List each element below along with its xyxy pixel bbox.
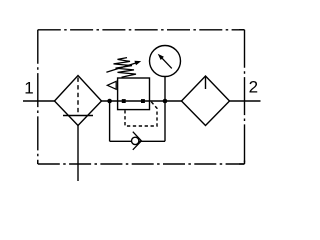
regulator valve seat square left bbox=[122, 99, 126, 103]
regulator relief vent triangle bbox=[107, 81, 116, 89]
regulator valve seat square right bbox=[141, 99, 145, 103]
filter water separator line bbox=[63, 115, 93, 117]
enclosure corner patches bbox=[37, 161, 39, 165]
wire: main line right segment (lubricator to port 2) bbox=[230, 100, 261, 102]
wire: main line middle segment (filter to lubricator through regulator) bbox=[102, 100, 182, 102]
wire: bypass loop bottom horizontal bbox=[110, 140, 165, 142]
node: junction dot left of regulator bbox=[107, 99, 112, 104]
pilot line (dashed feedback loop) bbox=[125, 102, 157, 126]
check valve seat bbox=[133, 132, 142, 150]
regulator R (body rectangle) bbox=[118, 78, 150, 110]
svg-text:1: 1 bbox=[24, 79, 33, 98]
check valve ball bbox=[132, 137, 139, 144]
regulator adjustment spring (zigzag) bbox=[114, 58, 137, 78]
enclosure (dash-dot assembly border) bbox=[38, 30, 245, 164]
wire: main line left segment (port 1 to filter) bbox=[23, 100, 55, 102]
regulator adjustment arrow bbox=[106, 63, 136, 72]
pressure gauge needle bbox=[161, 57, 172, 69]
lubricator oil drip line bbox=[205, 77, 207, 90]
svg-text:2: 2 bbox=[249, 78, 258, 97]
filter element (dashed centerline) bbox=[77, 78, 79, 115]
wire: filter condensate drain bbox=[77, 126, 79, 182]
wire: bypass loop left vertical bbox=[109, 101, 111, 141]
node: junction dot right of regulator (gauge tap) bbox=[163, 99, 168, 104]
wire: bypass loop right vertical bbox=[164, 101, 166, 141]
lubricator L (diamond body) bbox=[182, 76, 230, 126]
pressure gauge G (dial circle) bbox=[150, 46, 181, 77]
filter F (diamond body) bbox=[55, 76, 102, 126]
wire: gauge stem bbox=[164, 77, 166, 102]
